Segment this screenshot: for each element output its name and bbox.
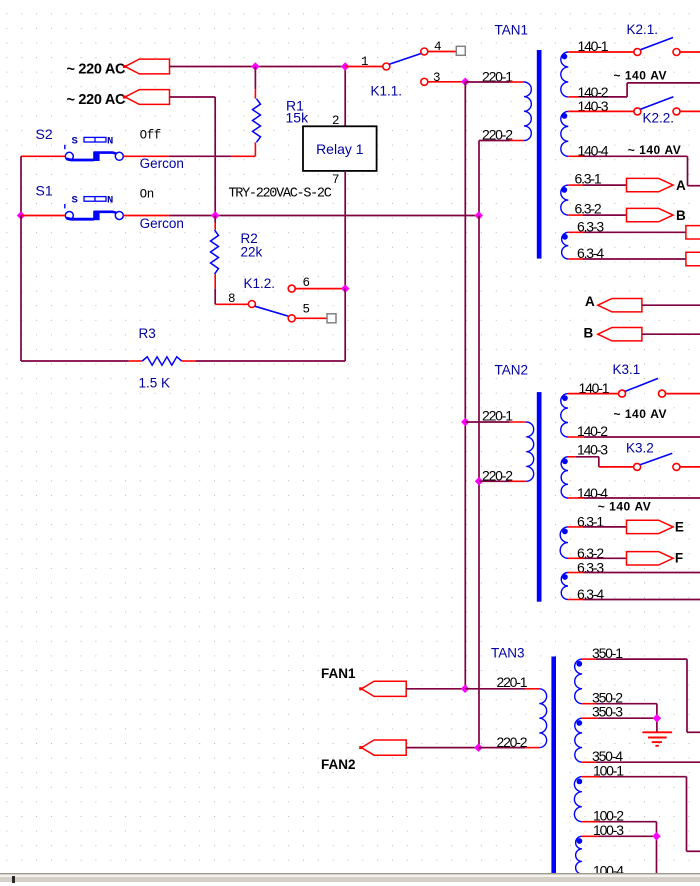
wire xyxy=(599,835,657,837)
wire xyxy=(568,526,583,528)
wire xyxy=(478,747,525,749)
wire xyxy=(687,850,700,852)
winding TAN1 sec3 xyxy=(561,185,568,215)
winding TAN2 primary xyxy=(526,422,533,481)
phase dot xyxy=(561,187,567,193)
svg-text:3: 3 xyxy=(433,71,441,85)
wire xyxy=(568,110,634,112)
svg-text:1.5 K: 1.5 K xyxy=(139,376,171,391)
wire xyxy=(214,289,216,305)
wire xyxy=(680,466,700,468)
contact K3.2 xyxy=(634,463,641,470)
connector flag E out xyxy=(627,520,674,533)
wire xyxy=(568,155,583,157)
wire xyxy=(582,658,596,660)
wire xyxy=(656,822,658,875)
wire xyxy=(600,776,687,778)
svg-text:B: B xyxy=(676,208,686,223)
svg-text:~ 220 AC: ~ 220 AC xyxy=(67,92,127,108)
winding TAN2 sec2 xyxy=(561,457,568,498)
svg-text:S2: S2 xyxy=(36,126,53,142)
wire xyxy=(583,214,627,216)
connector flag FAN1 xyxy=(361,681,406,696)
svg-text:S1: S1 xyxy=(36,183,53,199)
wire xyxy=(642,304,700,306)
wire xyxy=(583,184,627,186)
wire xyxy=(231,155,255,157)
wire xyxy=(642,333,700,335)
svg-text:B: B xyxy=(584,326,594,341)
wire xyxy=(583,231,686,233)
wire xyxy=(510,140,524,142)
wire xyxy=(510,81,524,83)
wire xyxy=(568,231,583,233)
contact K2.2 xyxy=(634,108,641,115)
svg-text:8: 8 xyxy=(228,292,236,306)
node junction pin3/TAN1 xyxy=(461,78,469,86)
resistor R3 xyxy=(129,360,143,362)
wire xyxy=(583,572,700,574)
svg-text:220-1: 220-1 xyxy=(497,674,528,690)
contact K1.1 xyxy=(383,63,390,70)
winding TAN3 sec1 xyxy=(575,659,582,704)
winding TAN3 sec2 xyxy=(575,718,582,762)
wire xyxy=(568,497,584,499)
node junction TAN2 220-1 xyxy=(461,418,469,426)
svg-text:K1.2.: K1.2. xyxy=(244,276,276,291)
wire xyxy=(510,421,527,423)
wire xyxy=(568,96,583,98)
svg-text:Gercon: Gercon xyxy=(140,216,184,231)
phase dot xyxy=(562,234,568,240)
wire xyxy=(582,776,600,778)
transformer TAN2 core xyxy=(537,392,542,602)
node junction FAN2 xyxy=(474,743,482,751)
winding TAN3 primary xyxy=(539,689,546,748)
connector flag 6.3-4 (cut) xyxy=(686,252,700,265)
phase dot xyxy=(562,458,568,464)
svg-text:140-3: 140-3 xyxy=(577,442,608,458)
wire xyxy=(599,466,634,468)
wire xyxy=(582,821,599,823)
wire xyxy=(680,51,700,53)
wire xyxy=(344,289,346,361)
wire xyxy=(428,51,457,53)
connector flag FAN2 xyxy=(361,740,406,755)
svg-text:N: N xyxy=(107,136,113,148)
phase dot xyxy=(576,661,582,667)
wire xyxy=(626,83,628,97)
wire xyxy=(688,185,700,187)
wire xyxy=(584,497,700,499)
wire xyxy=(596,658,687,660)
svg-text:~ 220 AC: ~ 220 AC xyxy=(67,62,127,78)
svg-text:F: F xyxy=(675,551,683,566)
wire bus A xyxy=(464,82,466,689)
wire xyxy=(295,317,327,319)
wire xyxy=(583,258,686,260)
svg-text:Relay 1: Relay 1 xyxy=(316,141,364,157)
wire xyxy=(465,81,510,83)
wire xyxy=(568,258,583,260)
svg-text:R3: R3 xyxy=(139,326,156,341)
wire xyxy=(478,141,480,216)
svg-text:TAN3: TAN3 xyxy=(491,646,525,661)
svg-text:220-2: 220-2 xyxy=(497,734,528,750)
wire xyxy=(406,688,465,690)
svg-text:5: 5 xyxy=(303,303,311,317)
svg-text:Off: Off xyxy=(140,129,161,143)
node junction S1 right xyxy=(211,211,219,219)
wire xyxy=(345,66,383,68)
wire bus S1 row xyxy=(169,215,479,217)
wire xyxy=(599,821,657,823)
wire xyxy=(568,436,584,438)
wire xyxy=(510,480,527,482)
svg-text:K2.1.: K2.1. xyxy=(627,22,659,37)
wire xyxy=(214,216,216,223)
svg-text:S: S xyxy=(72,195,78,207)
wire xyxy=(21,215,65,217)
connector flag B in xyxy=(598,328,642,341)
transformer TAN3 core xyxy=(551,657,556,874)
svg-text:TAN1: TAN1 xyxy=(495,23,529,38)
phase dot xyxy=(562,113,568,119)
transformer TAN1 core xyxy=(537,50,542,259)
wire xyxy=(254,67,256,90)
wire xyxy=(525,688,539,690)
wire xyxy=(582,835,599,837)
wire xyxy=(525,747,539,749)
svg-text:~ 140 AV: ~ 140 AV xyxy=(628,143,681,157)
wire xyxy=(214,97,216,216)
wire xyxy=(215,303,248,305)
wire xyxy=(195,360,345,362)
wire xyxy=(568,214,583,216)
winding TAN2 sec3 xyxy=(560,527,568,558)
svg-text:A: A xyxy=(676,178,686,193)
wire xyxy=(21,360,129,362)
wire xyxy=(656,704,658,733)
svg-text:FAN1: FAN1 xyxy=(321,666,356,681)
winding TAN3 sec4 xyxy=(576,836,582,874)
wire xyxy=(123,215,168,217)
svg-text:S: S xyxy=(72,136,78,148)
wire xyxy=(583,526,627,528)
wire xyxy=(598,457,600,467)
wire xyxy=(598,717,657,719)
wire xyxy=(20,156,22,215)
svg-text:K2.2.: K2.2. xyxy=(643,110,675,125)
connector flag A out xyxy=(627,178,674,191)
connector flag F out xyxy=(627,552,674,565)
svg-text:Gercon: Gercon xyxy=(140,156,184,171)
svg-text:6.3-1: 6.3-1 xyxy=(575,171,602,187)
svg-text:6.3-2: 6.3-2 xyxy=(575,201,602,217)
wire xyxy=(568,51,634,53)
wire xyxy=(406,747,478,749)
svg-text:15k: 15k xyxy=(286,110,310,126)
wire xyxy=(680,110,700,112)
winding TAN2 sec1 xyxy=(561,394,568,437)
phase dot xyxy=(562,395,568,401)
wire xyxy=(568,456,576,458)
node junction top at R1 branch xyxy=(251,62,259,70)
svg-text:K3.1: K3.1 xyxy=(613,362,641,377)
wire xyxy=(582,717,598,719)
contact K2.1 xyxy=(634,49,641,56)
svg-text:TRY-220VAC-S-2C: TRY-220VAC-S-2C xyxy=(229,187,332,202)
wire xyxy=(21,155,65,157)
winding TAN1 sec2 xyxy=(561,111,568,156)
wire xyxy=(170,96,216,98)
wire xyxy=(428,81,466,83)
node junction pin6 xyxy=(341,284,349,292)
wire xyxy=(686,659,688,732)
winding TAN1 sec4 xyxy=(562,232,569,259)
phase dot xyxy=(562,574,568,580)
winding TAN1 sec1 xyxy=(561,52,568,97)
node junction FAN1 xyxy=(461,685,469,693)
svg-text:22k: 22k xyxy=(241,245,263,260)
wire xyxy=(583,96,627,98)
wire bus B xyxy=(478,216,480,748)
svg-text:350-3: 350-3 xyxy=(592,703,623,719)
wire xyxy=(170,66,346,68)
wire xyxy=(596,703,657,705)
node junction busB top xyxy=(475,211,483,219)
winding TAN3 sec3 xyxy=(574,777,581,822)
terminal square pin5 xyxy=(327,314,336,323)
svg-text:K1.1.: K1.1. xyxy=(371,84,403,99)
svg-text:220-1: 220-1 xyxy=(482,407,513,423)
svg-text:E: E xyxy=(675,520,684,535)
wire xyxy=(479,140,510,142)
wire xyxy=(596,761,700,763)
resistor R1 xyxy=(254,89,256,98)
connector flag B out xyxy=(627,208,674,221)
wire pin7 down xyxy=(344,171,346,289)
wire xyxy=(627,82,700,84)
svg-text:K3.2: K3.2 xyxy=(626,441,654,456)
phase dot xyxy=(562,54,568,60)
connector flag A in xyxy=(598,299,642,312)
wire pin2 xyxy=(344,67,346,127)
relay coil U1 Relay 1 xyxy=(303,126,377,171)
node junction relay pin2 tap xyxy=(341,62,349,70)
node junction ground xyxy=(653,714,661,722)
wire xyxy=(687,731,700,733)
phase dot xyxy=(576,720,582,726)
wire xyxy=(568,184,583,186)
phase dot xyxy=(562,529,568,535)
node junction 100-2/100-3 xyxy=(652,832,660,840)
wire xyxy=(123,155,168,157)
wire xyxy=(583,155,688,157)
wire xyxy=(686,777,688,852)
svg-text:On: On xyxy=(140,188,154,202)
svg-text:FAN2: FAN2 xyxy=(321,757,356,772)
svg-text:~ 140 AV: ~ 140 AV xyxy=(614,407,667,421)
resistor R2 xyxy=(214,223,216,230)
phase dot xyxy=(577,838,583,844)
winding TAN1 primary xyxy=(524,82,531,141)
wire xyxy=(568,393,619,395)
ground xyxy=(642,731,672,733)
wire xyxy=(465,421,510,423)
svg-text:~ 140 AV: ~ 140 AV xyxy=(598,499,651,513)
wire xyxy=(568,572,583,574)
contact K1.1 pin3 xyxy=(421,78,428,85)
wire xyxy=(583,557,627,559)
wire xyxy=(568,557,583,559)
contact K3.1 xyxy=(619,390,626,397)
contact K1.2 xyxy=(248,301,255,308)
connector flag X2 ~220AC neutral xyxy=(125,90,169,105)
wire xyxy=(583,599,700,601)
svg-text:~ 140 AV: ~ 140 AV xyxy=(614,68,667,82)
connector flag 6.3-3 (cut) xyxy=(686,226,700,239)
wire xyxy=(465,688,525,690)
wire xyxy=(20,216,22,362)
terminal square pin4 xyxy=(456,46,465,55)
node junction TAN2 220-2 xyxy=(475,477,483,485)
wire xyxy=(666,393,700,395)
wire xyxy=(687,156,689,185)
wire xyxy=(576,456,599,458)
wire xyxy=(479,480,510,482)
node junction S1 left xyxy=(17,211,25,219)
wire xyxy=(584,436,700,438)
wire xyxy=(582,761,596,763)
winding TAN2 sec4 xyxy=(561,573,568,600)
svg-text:TAN2: TAN2 xyxy=(495,363,529,378)
wire xyxy=(568,599,583,601)
svg-text:A: A xyxy=(585,294,595,309)
svg-text:N: N xyxy=(107,195,113,207)
connector flag X1 ~220AC hot xyxy=(125,59,169,74)
phase dot xyxy=(577,779,583,785)
wire xyxy=(169,155,231,157)
svg-text:7: 7 xyxy=(332,173,340,187)
wire xyxy=(582,703,596,705)
wire xyxy=(295,288,345,290)
